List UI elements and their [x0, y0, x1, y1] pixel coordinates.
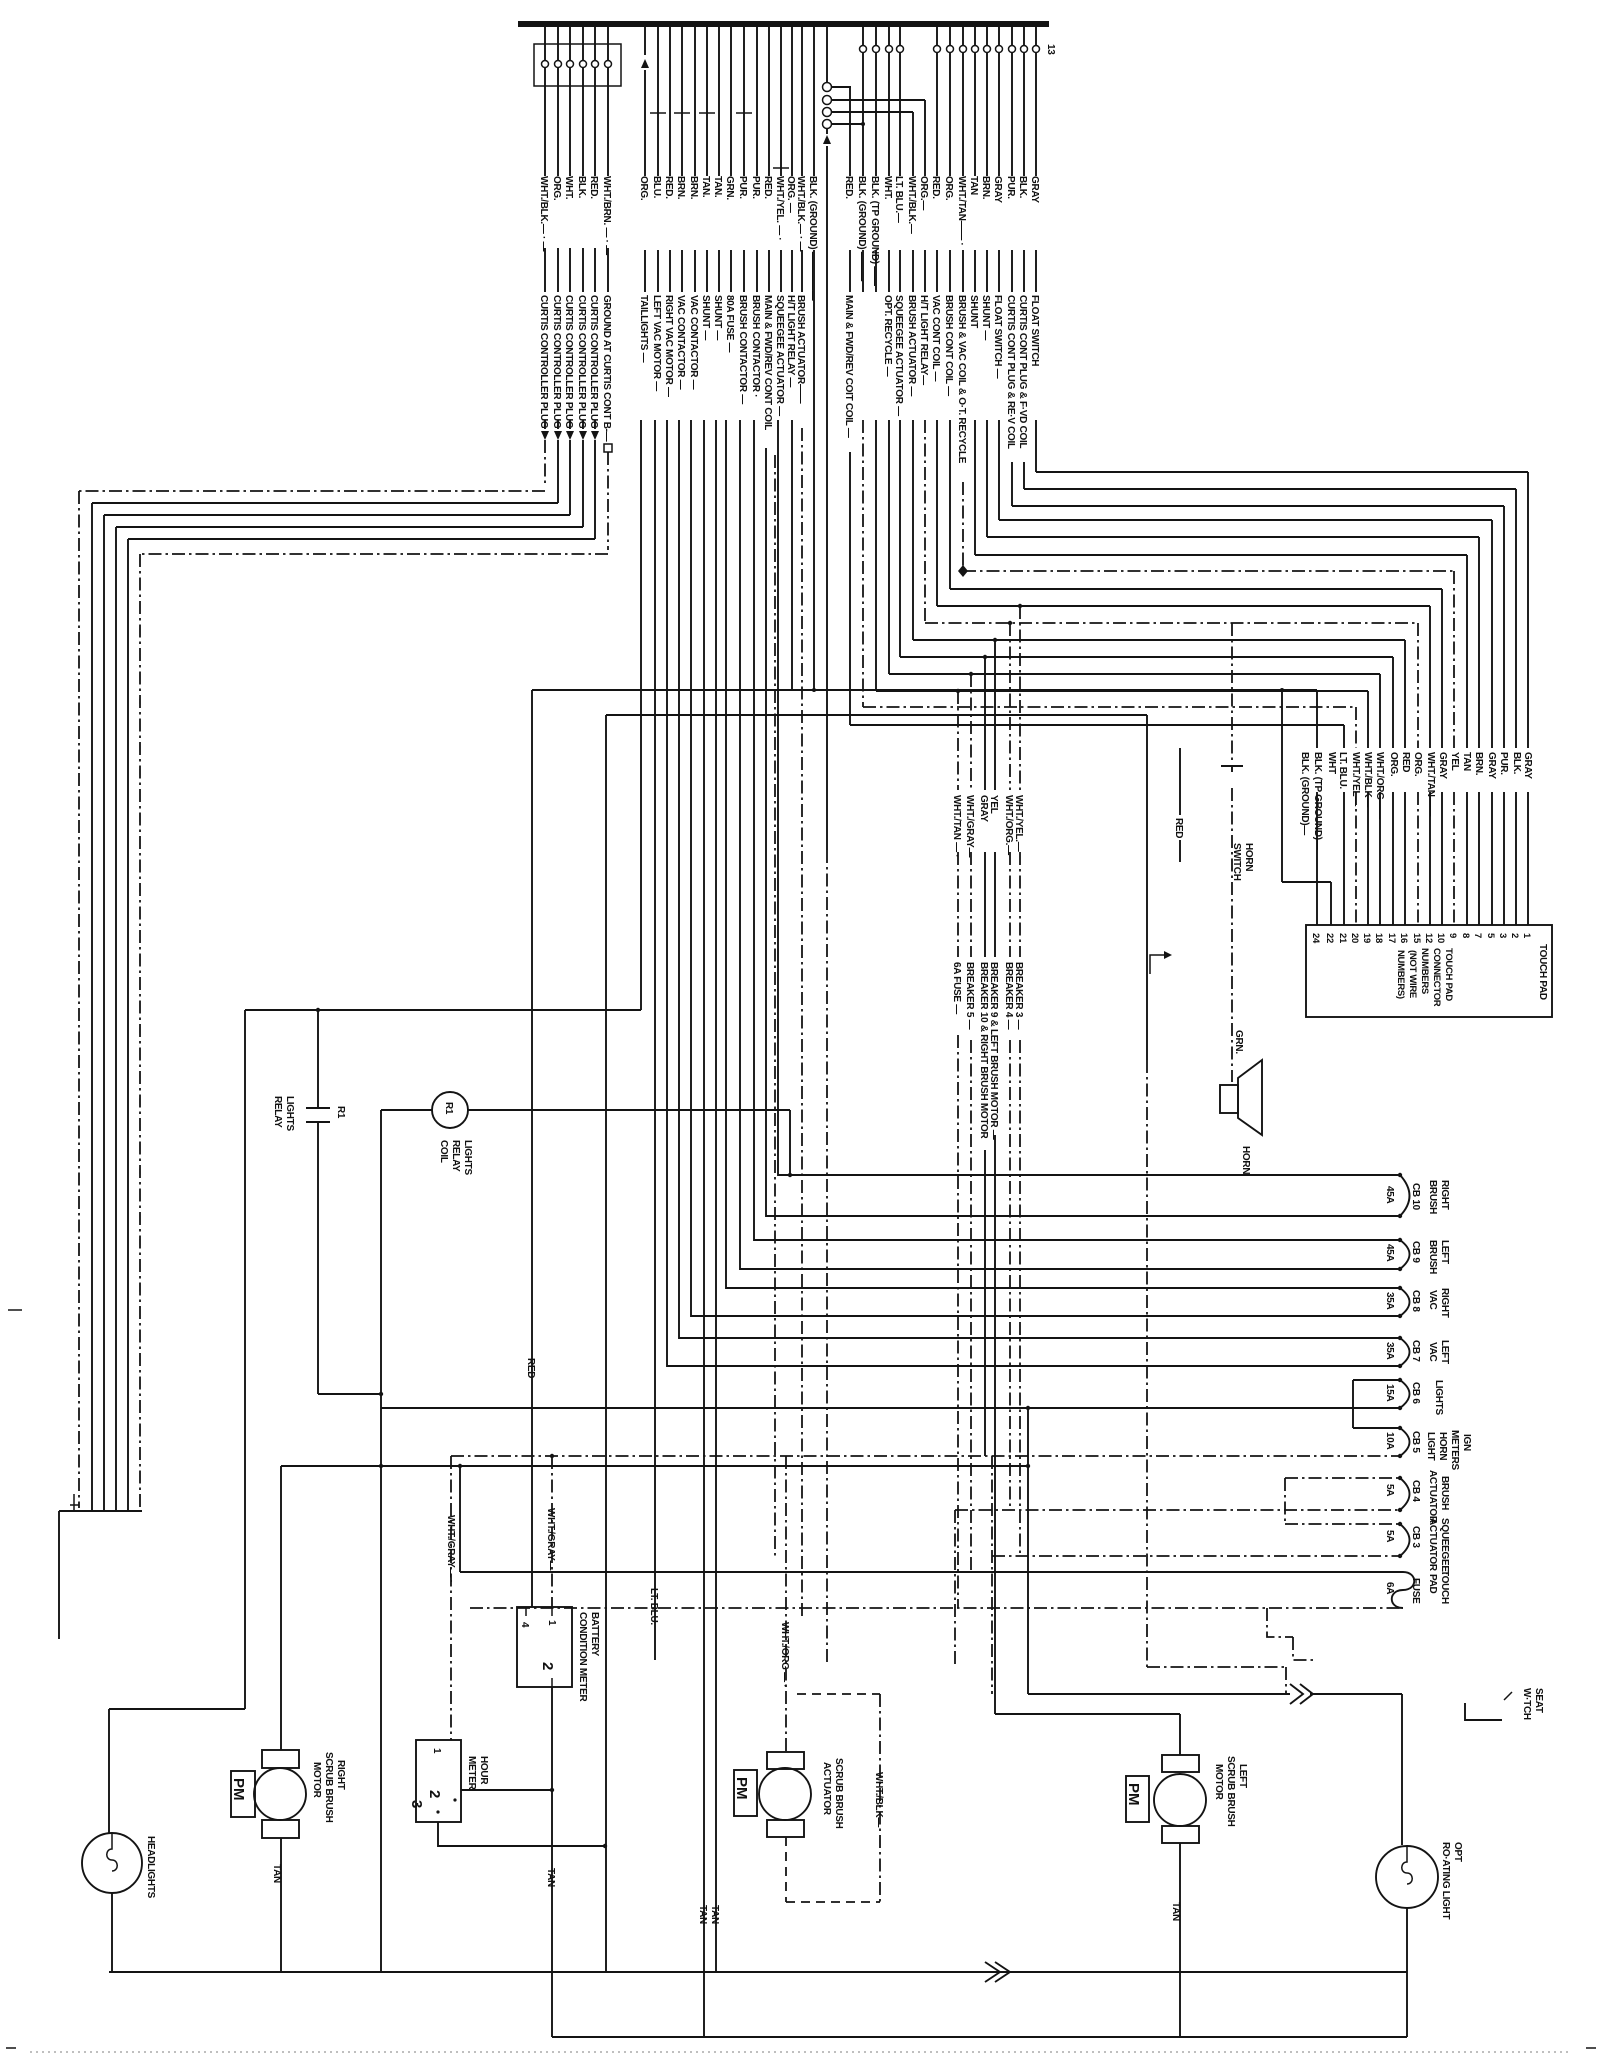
wire RED. harness run	[128, 440, 595, 1511]
wire WHT./GRAY to battery condition meter	[551, 1456, 553, 1607]
svg-text:CB 3: CB 3	[1410, 1526, 1421, 1548]
svg-text:IGN: IGN	[1461, 1434, 1472, 1451]
harness ground bus at lower left	[59, 1510, 142, 1512]
svg-text:LIGHT: LIGHT	[1425, 1432, 1436, 1461]
wire to CB9 bottom	[740, 420, 1400, 1269]
right scrub brush motor feed	[281, 1466, 1028, 1750]
wire ORG. to brush cont coil	[949, 27, 951, 292]
svg-text:CB 4: CB 4	[1410, 1480, 1421, 1502]
wire BLK ground to touch pad pin 20	[863, 420, 1356, 925]
wire RED to touch pad pin 12	[937, 420, 1430, 925]
svg-text:H/T LIGHT RELAY —: H/T LIGHT RELAY —	[785, 295, 796, 387]
svg-text:CURTIS CONT PLUG & RE·V COIL: CURTIS CONT PLUG & RE·V COIL	[1005, 295, 1016, 449]
svg-text:35A: 35A	[1384, 1292, 1395, 1310]
svg-text:CONDITION METER: CONDITION METER	[577, 1612, 588, 1702]
headlights	[82, 1833, 142, 1893]
wire TAN shunt run to lower bus	[703, 420, 705, 2037]
horn branch dash-dot run	[1147, 1060, 1286, 1694]
left scrub brush motor feed	[995, 1714, 1180, 1755]
svg-text:PAD: PAD	[1427, 1574, 1438, 1594]
svg-text:TOUCH PAD: TOUCH PAD	[1443, 948, 1454, 1001]
svg-text:3: 3	[408, 1800, 425, 1808]
svg-text:1: 1	[431, 1748, 442, 1754]
svg-text:HORN: HORN	[1437, 1432, 1448, 1460]
svg-text:16: 16	[1398, 933, 1409, 943]
svg-text:BATTERY: BATTERY	[589, 1612, 600, 1657]
svg-text:RELAY: RELAY	[272, 1096, 283, 1128]
circuit breaker CB9 45A left brush	[1400, 1240, 1410, 1269]
svg-text:RIGHT: RIGHT	[335, 1760, 346, 1790]
svg-text:2: 2	[426, 1790, 443, 1798]
svg-text:9: 9	[1447, 933, 1458, 938]
svg-text:PUR.: PUR.	[1005, 176, 1016, 199]
svg-text:BREAKER 4 —: BREAKER 4 —	[1003, 962, 1014, 1030]
wire BRN. to shunt	[986, 27, 988, 292]
svg-text:LIGHTS: LIGHTS	[284, 1096, 295, 1131]
svg-text:TAN: TAN	[271, 1864, 282, 1883]
svg-text:VAC CONTACTOR —: VAC CONTACTOR —	[675, 295, 686, 390]
svg-text:LEFT: LEFT	[1439, 1340, 1450, 1364]
wire BRN. to vac contactor	[694, 27, 696, 292]
svg-text:21: 21	[1337, 933, 1348, 944]
wire LT. BLU. run	[654, 420, 656, 1660]
svg-text:BLK.: BLK.	[576, 176, 587, 199]
svg-text:WHT./YEL—: WHT./YEL—	[1350, 752, 1361, 806]
wire ORG. to taillights	[644, 27, 646, 292]
svg-text:12: 12	[1423, 933, 1434, 943]
svg-text:45A: 45A	[1384, 1244, 1395, 1262]
wire RED. to main and fwd/rev cont coil	[849, 87, 851, 292]
svg-text:10A: 10A	[1384, 1432, 1395, 1450]
svg-text:(NOT WIRE: (NOT WIRE	[1407, 950, 1418, 998]
scrub brush actuator motor	[767, 1752, 804, 1769]
wire PUR. to Curtis cont plug and rev coil	[1011, 27, 1013, 292]
svg-text:METER: METER	[466, 1756, 477, 1791]
svg-text:FLOAT SWITCH: FLOAT SWITCH	[1029, 295, 1040, 366]
wire TAN to shunt	[974, 27, 976, 292]
wire BLK. (ground)	[813, 27, 815, 292]
svg-text:GRAY: GRAY	[978, 795, 989, 822]
svg-text:ORG.: ORG.	[1412, 752, 1423, 777]
main negative bus	[109, 1971, 1407, 1973]
svg-text:HOUR: HOUR	[478, 1756, 489, 1785]
hour meter wires	[461, 1789, 552, 1791]
wire WHT/BLK to touch pad pin 16	[913, 420, 1405, 925]
wire RED. to Curtis controller plug	[594, 27, 596, 429]
wire BRN to touch pad pin 7	[987, 420, 1479, 925]
wire WHT./TAN to brush and vac coil and opt. recycle	[962, 27, 964, 292]
svg-text:LT. BLU.: LT. BLU.	[1337, 752, 1348, 789]
svg-text:LIGHTS: LIGHTS	[1433, 1380, 1444, 1415]
svg-text:2: 2	[1509, 933, 1520, 938]
top supply bus bar	[518, 21, 1049, 27]
wire RED horn feed stub	[1179, 748, 1181, 862]
svg-text:SQUEEGEE ACTUATOR —: SQUEEGEE ACTUATOR —	[774, 295, 785, 416]
svg-text:BREAKER 10 & RIGHT BRUSH MOTOR: BREAKER 10 & RIGHT BRUSH MOTOR	[978, 962, 989, 1139]
wire WHT./ORG to scrub brush actuator	[785, 1456, 787, 1752]
svg-text:WHT./TAN — ·: WHT./TAN — ·	[951, 795, 962, 857]
svg-text:WHT./BLK—: WHT./BLK—	[873, 1772, 884, 1827]
svg-text:CURTIS CONTROLLER PLUG: CURTIS CONTROLLER PLUG	[538, 295, 549, 429]
svg-text:LEFT: LEFT	[1439, 1240, 1450, 1264]
svg-text:TOUCH: TOUCH	[1439, 1570, 1450, 1604]
svg-text:22: 22	[1324, 933, 1335, 943]
wire BRN. to vac contactor	[681, 27, 683, 292]
svg-text:BRUSH CONTACTOR ·: BRUSH CONTACTOR ·	[750, 295, 761, 397]
wire WHT./GRAY to hour meter	[450, 1456, 452, 1740]
fuse 6A touch pad	[460, 1466, 1403, 1572]
svg-text:BLK. (GROUND) —————: BLK. (GROUND) —————	[807, 176, 818, 301]
test point jumper wires	[831, 87, 925, 124]
svg-text:NUMBERS: NUMBERS	[1419, 948, 1430, 994]
svg-text:BRUSH: BRUSH	[1427, 1240, 1438, 1274]
wire LT BLU to touch pad pin 17	[900, 420, 1393, 925]
svg-text:VAC: VAC	[1427, 1342, 1438, 1362]
right scrub brush motor	[262, 1750, 299, 1768]
svg-text:LIGHTS: LIGHTS	[462, 1140, 473, 1175]
svg-text:SEAT: SEAT	[1533, 1688, 1544, 1713]
plug terminal circles	[542, 61, 549, 68]
wire RED. to main and fwd/rev cont coil	[768, 27, 770, 292]
wire WHT to touch pad pin 18	[889, 420, 1380, 925]
svg-text:WHT./GRAY—: WHT./GRAY—	[964, 795, 975, 857]
svg-text:15A: 15A	[1384, 1384, 1395, 1402]
svg-text:19: 19	[1361, 933, 1372, 943]
svg-text:CB 5: CB 5	[1410, 1431, 1421, 1453]
svg-text:RELAY: RELAY	[450, 1140, 461, 1172]
svg-text:ACTUATOR: ACTUATOR	[1427, 1470, 1438, 1524]
svg-text:6A: 6A	[1384, 1582, 1395, 1594]
wire to CB7 bottom	[667, 420, 1400, 1366]
lights relay contact R1	[306, 1010, 381, 1394]
svg-text:WHT: WHT	[1326, 752, 1337, 774]
circuit breaker CB5 10A ign meters horn light	[1353, 1427, 1400, 1429]
wire LT. BLU. to squeegee actuator	[899, 27, 901, 292]
wire GRAY to float switch	[1035, 27, 1037, 292]
wire taillights run	[640, 420, 642, 1010]
svg-text:SHUNT —: SHUNT —	[980, 295, 991, 340]
svg-text:GRAY: GRAY	[1437, 752, 1448, 779]
opt rotating light feed	[1028, 1408, 1402, 1845]
wire WHT./GRAY to breaker 5	[970, 674, 972, 1572]
wire LT. BLU. long run to bus	[605, 715, 607, 1972]
svg-text:RED.: RED.	[588, 176, 599, 199]
svg-text:GRAY: GRAY	[1522, 752, 1533, 779]
svg-text:RIGHT VAC MOTOR —: RIGHT VAC MOTOR —	[663, 295, 674, 397]
wire BLK to touch pad pin 2	[1024, 462, 1516, 925]
svg-text:WHT./BLK.—: WHT./BLK.—	[906, 176, 917, 234]
wire BLK. harness run	[116, 440, 583, 1511]
scrub brush actuator harness outline	[797, 1693, 880, 1695]
svg-text:15: 15	[1411, 933, 1422, 944]
svg-text:TAN: TAN	[968, 176, 979, 195]
svg-text:WHT.: WHT.	[882, 176, 893, 200]
svg-text:17: 17	[1386, 933, 1397, 943]
svg-text:RED: RED	[1173, 818, 1184, 838]
svg-text:METERS: METERS	[1449, 1430, 1460, 1471]
svg-text:35A: 35A	[1384, 1342, 1395, 1360]
svg-text:WHT./BRN. — · —: WHT./BRN. — · —	[601, 176, 612, 255]
svg-text:RED.: RED.	[843, 176, 854, 199]
left scrub brush motor	[1162, 1755, 1199, 1772]
wire WHT./TAN to 6A fuse	[957, 691, 959, 1608]
horn	[1220, 1085, 1238, 1113]
wire WHT./BRN. ground harness run	[140, 452, 608, 1508]
svg-text:HORN: HORN	[1240, 1146, 1251, 1174]
svg-text:SHUNT —: SHUNT —	[712, 295, 723, 340]
svg-text:WHT./GRAY— ·: WHT./GRAY— ·	[445, 1515, 456, 1583]
red supply wire down to battery condition meter	[531, 690, 533, 1607]
svg-text:SCRUB BRUSH: SCRUB BRUSH	[1225, 1756, 1236, 1827]
svg-text:SQUEEGEE ACTUATOR —: SQUEEGEE ACTUATOR —	[893, 295, 904, 416]
svg-text:3: 3	[1497, 933, 1508, 938]
svg-text:WHT./BLK—: WHT./BLK—	[1362, 752, 1373, 807]
wire WHT./BLK. to Curtis controller plug	[544, 27, 546, 429]
svg-text:18: 18	[1373, 933, 1384, 943]
wire to horn circuit branch	[606, 715, 1147, 1060]
wire WHT. harness run	[104, 440, 570, 1511]
wire WHT. to Curtis controller plug	[569, 27, 571, 429]
svg-text:GROUND AT CURTIS CONT B-—: GROUND AT CURTIS CONT B-—	[601, 295, 612, 442]
svg-text:WHT./BLK.— · —: WHT./BLK.— · —	[538, 176, 549, 252]
svg-text:SQUEEGEE:: SQUEEGEE:	[1439, 1518, 1450, 1575]
svg-text:WHT./ORG——: WHT./ORG——	[1374, 752, 1385, 819]
wire RED. to right vac motor	[669, 27, 671, 292]
svg-text:TAN: TAN	[1461, 752, 1472, 771]
wire GRAY to breaker 10 and right brush motor	[984, 657, 986, 1456]
page edge dotted rule	[30, 2051, 1570, 2053]
wire BLU. to left vac motor	[657, 27, 659, 292]
test point connector circles	[826, 27, 828, 82]
wire TAN shunt run to lower bus	[715, 420, 717, 1972]
wire GRAY to float switch	[998, 27, 1000, 292]
svg-text:RED.: RED.	[663, 176, 674, 199]
svg-text:YEL: YEL	[1449, 752, 1460, 771]
flow arrow	[1150, 955, 1164, 974]
wire ORG. harness run	[92, 440, 558, 1511]
svg-text:BLK.: BLK.	[1017, 176, 1028, 199]
svg-text:HEADLIGHTS: HEADLIGHTS	[145, 1836, 156, 1899]
svg-text:SHUNT —: SHUNT —	[700, 295, 711, 340]
wire RED to touch pad pin 21	[850, 452, 1344, 925]
wire to CB10 bottom	[766, 448, 1400, 1216]
svg-text:7: 7	[1472, 933, 1483, 938]
svg-text:CURTIS CONT PLUG & F·VD COIL: CURTIS CONT PLUG & F·VD COIL	[1017, 295, 1028, 448]
svg-text:ACTUATOR: ACTUATOR	[821, 1762, 832, 1816]
wire BLK. (ground)	[862, 27, 864, 292]
wire PUR. to brush contactor	[743, 27, 745, 292]
wire TAN. to shunt	[718, 27, 720, 292]
wire RED. to vac cont coil	[936, 27, 938, 292]
svg-text:1: 1	[546, 1620, 557, 1626]
svg-text:BRN.: BRN.	[675, 176, 686, 200]
svg-text:GRN.: GRN.	[1233, 1030, 1244, 1054]
circuit breaker CB6 15A lights	[381, 1380, 1400, 1428]
headlights feed wire	[109, 1709, 245, 1833]
accessory dash-dot elbow run	[1267, 1608, 1316, 1660]
wire WHT. to opt. recycle	[888, 27, 890, 292]
svg-text:ORG.: ORG.	[638, 176, 649, 201]
wire to CB8 bottom	[691, 420, 1400, 1316]
svg-text:5A: 5A	[1384, 1484, 1395, 1496]
svg-text:BRUSH CONT COIL —: BRUSH CONT COIL —	[943, 295, 954, 396]
wire WHT/TAN to touch pad pin 9	[963, 482, 1454, 925]
svg-text:TAN: TAN	[697, 1905, 708, 1924]
wire GRAY to touch pad pin 1	[1036, 420, 1528, 925]
battery condition meter	[517, 1607, 572, 1687]
svg-text:WHT./YEL. — ·: WHT./YEL. — ·	[774, 176, 785, 240]
svg-text:TAILLIGHTS —: TAILLIGHTS —	[638, 295, 649, 363]
svg-text:WHT./TAN——: WHT./TAN——	[1425, 752, 1436, 816]
svg-text:ORG.—: ORG.—	[918, 176, 929, 210]
svg-text:PUR.: PUR.	[750, 176, 761, 199]
svg-text:FUSE: FUSE	[1410, 1578, 1421, 1604]
svg-text:TAN: TAN	[1170, 1902, 1181, 1921]
svg-text:CB 10: CB 10	[1410, 1183, 1421, 1211]
svg-text:CURTIS CONTROLLER PLUG: CURTIS CONTROLLER PLUG	[588, 295, 599, 429]
svg-text:PUR.: PUR.	[737, 176, 748, 199]
svg-text:ORG.: ORG.	[551, 176, 562, 201]
svg-text:RED: RED	[1400, 752, 1411, 772]
opt rotating light	[1376, 1846, 1438, 1908]
wire GRN. to horn	[1231, 788, 1233, 1082]
touch pad connector	[1306, 925, 1552, 1017]
svg-text:WHT./BLK.— · —: WHT./BLK.— · —	[795, 176, 806, 252]
svg-text:BRN.: BRN.	[980, 176, 991, 200]
wire ORG to touch pad pin 10	[950, 420, 1442, 925]
svg-text:PM: PM	[733, 1777, 750, 1800]
svg-text:TAN: TAN	[545, 1868, 556, 1887]
svg-text:BLK. (TP GROUND) ——: BLK. (TP GROUND) ——	[869, 176, 880, 286]
svg-text:SCRUB BRUSH: SCRUB BRUSH	[323, 1752, 334, 1823]
svg-text:ORG. —: ORG. —	[785, 176, 796, 213]
svg-text:8: 8	[1460, 933, 1471, 938]
wire WHT./BLK. to brush actuator	[912, 112, 914, 292]
wire WHT./YEL. to breaker 3	[1019, 606, 1021, 1556]
svg-text:LT. BLU.—: LT. BLU.—	[893, 176, 904, 223]
svg-text:10: 10	[1435, 933, 1446, 943]
circuit breaker CB8 35A right vac	[1400, 1288, 1410, 1316]
svg-text:CB 9: CB 9	[1410, 1241, 1421, 1263]
svg-text:BLU.: BLU.	[651, 176, 662, 199]
wire PUR. to brush contactor	[756, 27, 758, 292]
wire ground run	[826, 850, 828, 1662]
svg-text:RED: RED	[525, 1358, 536, 1378]
svg-text:4: 4	[519, 1622, 530, 1628]
svg-text:WHT./GRAY—: WHT./GRAY—	[545, 1508, 556, 1570]
svg-text:2: 2	[539, 1662, 556, 1670]
svg-text:CURTIS CONTROLLER PLUG: CURTIS CONTROLLER PLUG	[563, 295, 574, 429]
wire WHT./YEL. to squeegee actuator	[780, 27, 782, 292]
svg-text:MOTOR: MOTOR	[1213, 1764, 1224, 1801]
wire ORG. to Curtis controller plug	[557, 27, 559, 429]
seat switch	[1465, 1703, 1502, 1720]
svg-text:RIGHT: RIGHT	[1439, 1180, 1450, 1210]
svg-text:R1: R1	[335, 1106, 346, 1119]
svg-text:TAN: TAN	[709, 1905, 720, 1924]
svg-text:ACTUATOR: ACTUATOR	[1427, 1518, 1438, 1572]
wire WHT./BLK. to brush actuator	[801, 27, 803, 292]
wire BLK. (TP ground)	[875, 27, 877, 292]
svg-text:CONNECTOR: CONNECTOR	[1431, 948, 1442, 1007]
wire PUR to touch pad pin 3	[1012, 462, 1504, 925]
svg-text:FLOAT SWITCH —: FLOAT SWITCH —	[992, 295, 1003, 379]
svg-text:CB 6: CB 6	[1410, 1382, 1421, 1404]
wire ORG. to H/T light relay	[791, 27, 793, 292]
svg-text:WHT./TAN—— ·: WHT./TAN—— ·	[956, 176, 967, 246]
svg-text:MAIN & FWD/REV COIT COIL —: MAIN & FWD/REV COIT COIL —	[843, 295, 854, 438]
wire BLK. to Curtis controller plug	[582, 27, 584, 429]
wire to CB10 top	[778, 420, 1400, 1175]
svg-text:H/T LIGHT RELAY—: H/T LIGHT RELAY—	[918, 295, 929, 385]
svg-text:RIGHT: RIGHT	[1439, 1288, 1450, 1318]
wire WHT./BLK actuator return	[879, 1694, 881, 1902]
svg-text:W·TCH: W·TCH	[1521, 1688, 1532, 1720]
svg-text:SCRUB BRUSH: SCRUB BRUSH	[833, 1758, 844, 1829]
svg-text:RO·ATING LIGHT: RO·ATING LIGHT	[1440, 1842, 1451, 1919]
svg-text:BLK.: BLK.	[1511, 752, 1522, 775]
svg-text:20: 20	[1349, 933, 1360, 943]
wire accessory dash-dot run	[774, 455, 776, 1556]
svg-text:COIL: COIL	[438, 1140, 449, 1163]
svg-text:RED.: RED.	[762, 176, 773, 199]
svg-text:ORG.: ORG.	[1388, 752, 1399, 777]
wire TAN. to shunt	[706, 27, 708, 292]
wire to CB9 top	[754, 420, 1400, 1240]
svg-text:BRUSH ACTUATOR —: BRUSH ACTUATOR —	[906, 295, 917, 396]
svg-text:TAN.: TAN.	[700, 176, 711, 198]
svg-text:SHUNT: SHUNT	[968, 295, 979, 328]
svg-text:HORN: HORN	[1243, 843, 1254, 871]
wire GRN. to 80A fuse	[730, 27, 732, 292]
wire WHT./ORG. to breaker 4	[1009, 623, 1011, 1510]
svg-text:BLK. (GROUND) ———: BLK. (GROUND) ———	[856, 176, 867, 281]
svg-text:WHT./ORG — ·: WHT./ORG — ·	[779, 1622, 790, 1687]
svg-text:NUMBERS): NUMBERS)	[1395, 950, 1406, 999]
horn switch	[1231, 623, 1233, 762]
svg-text:WHT.: WHT.	[563, 176, 574, 200]
svg-text:BRN.: BRN.	[1473, 752, 1484, 776]
ground wire to touch pad pin 22	[1282, 690, 1331, 925]
svg-text:45A: 45A	[1384, 1186, 1395, 1204]
svg-text:PUR.: PUR.	[1498, 752, 1509, 775]
svg-text:LEFT VAC MOTOR —: LEFT VAC MOTOR —	[651, 295, 662, 391]
wire WHT./BLK. Curtis plug harness run	[79, 440, 545, 1508]
svg-text:80A FUSE —: 80A FUSE —	[724, 295, 735, 353]
svg-text:PM: PM	[230, 1778, 247, 1801]
wire ORG. to H/T light relay	[924, 100, 926, 292]
svg-text:VAC: VAC	[1427, 1290, 1438, 1310]
svg-text:WHT./ORG.—: WHT./ORG.—	[1003, 795, 1014, 855]
svg-text:CURTIS CONTROLLER PLUG: CURTIS CONTROLLER PLUG	[576, 295, 587, 429]
svg-text:24: 24	[1310, 933, 1321, 944]
secondary return bus	[552, 2036, 1407, 2038]
hour meter	[416, 1740, 461, 1822]
wire TAN to touch pad pin 8	[975, 420, 1467, 925]
connector plug at Curtis controller	[534, 44, 621, 86]
svg-text:BRUSH & VAC COIL & O·T. RECYC: BRUSH & VAC COIL & O·T. RECYCLE	[956, 295, 967, 464]
svg-text:OPT: OPT	[1452, 1842, 1463, 1862]
wire GRAY to touch pad pin 5	[999, 420, 1492, 925]
svg-text:CB 7: CB 7	[1410, 1340, 1421, 1362]
svg-text:BRUSH CONTACTOR —: BRUSH CONTACTOR —	[737, 295, 748, 404]
svg-text:VAC CONT COIL —: VAC CONT COIL —	[930, 295, 941, 382]
svg-text:TAN.: TAN.	[712, 176, 723, 198]
wire WHT./BRN. ground at Curtis cont B-	[607, 27, 609, 292]
svg-text:LEFT: LEFT	[1237, 1764, 1248, 1788]
circuit breaker CB3 5A squeegee actuator	[1285, 1523, 1400, 1525]
svg-text:GRAY: GRAY	[1029, 176, 1040, 203]
